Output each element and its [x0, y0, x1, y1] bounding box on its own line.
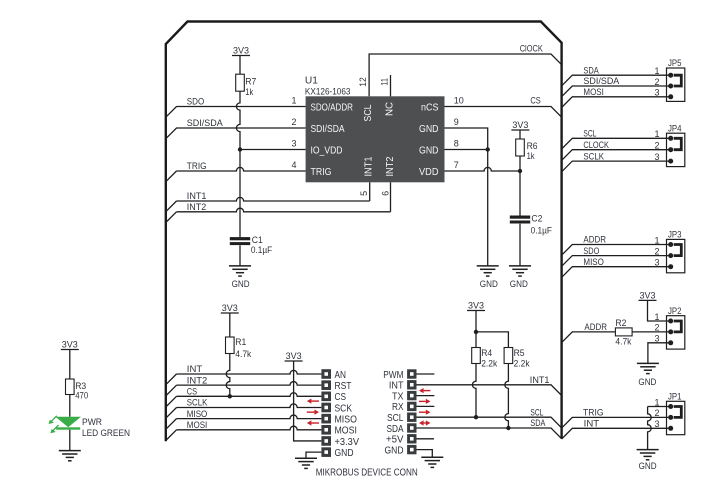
svg-text:0.1µF: 0.1µF — [531, 226, 553, 236]
svg-text:ADDR: ADDR — [583, 235, 606, 245]
svg-text:1: 1 — [291, 96, 296, 106]
svg-text:GND: GND — [638, 377, 656, 388]
svg-text:CS: CS — [187, 387, 197, 397]
svg-text:ADDR: ADDR — [584, 322, 607, 332]
svg-text:SCLK: SCLK — [187, 398, 208, 408]
svg-text:R4: R4 — [481, 348, 492, 358]
svg-text:1: 1 — [654, 129, 659, 139]
svg-text:3: 3 — [654, 334, 659, 344]
svg-text:LED GREEN: LED GREEN — [82, 428, 130, 438]
svg-text:SDA: SDA — [530, 418, 545, 428]
svg-text:8: 8 — [454, 139, 459, 149]
svg-text:INT2: INT2 — [187, 202, 206, 212]
svg-text:12: 12 — [358, 77, 368, 87]
svg-text:5: 5 — [359, 191, 369, 196]
svg-text:GND: GND — [639, 461, 657, 472]
svg-text:INT: INT — [389, 381, 404, 392]
svg-text:SDO: SDO — [583, 246, 599, 256]
svg-text:MOSI: MOSI — [335, 426, 357, 437]
svg-text:9: 9 — [454, 117, 459, 127]
svg-text:MISO: MISO — [187, 409, 208, 419]
svg-text:JP1: JP1 — [668, 392, 682, 402]
svg-text:1k: 1k — [245, 87, 253, 97]
svg-text:VDD: VDD — [419, 167, 439, 178]
svg-text:INT2: INT2 — [187, 375, 208, 385]
svg-text:MOSI: MOSI — [583, 87, 604, 97]
svg-text:JP5: JP5 — [668, 58, 682, 68]
svg-text:R5: R5 — [514, 348, 525, 358]
svg-text:7: 7 — [454, 160, 459, 170]
svg-text:SDI/SDA: SDI/SDA — [311, 124, 345, 135]
svg-text:U1: U1 — [305, 76, 318, 87]
svg-text:SCL: SCL — [583, 129, 596, 139]
svg-text:SDI/SDA: SDI/SDA — [583, 76, 619, 86]
svg-text:3: 3 — [654, 419, 659, 429]
svg-text:3: 3 — [291, 139, 296, 149]
svg-text:+3.3V: +3.3V — [335, 437, 360, 448]
svg-text:TRIG: TRIG — [187, 161, 207, 171]
svg-text:3V3: 3V3 — [468, 301, 484, 311]
svg-text:3V3: 3V3 — [222, 303, 238, 313]
svg-text:ClOCK: ClOCK — [520, 44, 543, 54]
svg-text:JP3: JP3 — [668, 230, 682, 240]
svg-text:INT1: INT1 — [530, 375, 550, 385]
svg-text:TRIG: TRIG — [583, 408, 604, 418]
svg-text:SCL: SCL — [387, 413, 404, 424]
svg-text:CS: CS — [530, 96, 540, 106]
svg-text:CLOCK: CLOCK — [583, 140, 609, 150]
svg-text:SDO/ADDR: SDO/ADDR — [311, 103, 354, 114]
svg-text:1: 1 — [654, 235, 659, 245]
svg-text:TRIG: TRIG — [311, 167, 332, 178]
svg-text:10: 10 — [454, 96, 464, 106]
svg-text:MOSI: MOSI — [187, 420, 208, 430]
svg-text:GND: GND — [480, 279, 498, 290]
svg-text:3: 3 — [654, 88, 659, 98]
svg-text:3: 3 — [654, 152, 659, 162]
svg-text:1: 1 — [654, 66, 659, 76]
svg-text:2: 2 — [654, 323, 659, 333]
svg-text:AN: AN — [335, 370, 347, 381]
svg-text:R3: R3 — [75, 381, 86, 391]
svg-text:PWM: PWM — [383, 370, 403, 381]
svg-text:3V3: 3V3 — [233, 46, 249, 56]
svg-text:MISO: MISO — [583, 257, 604, 267]
svg-text:INT1: INT1 — [363, 156, 374, 176]
svg-text:0.1µF: 0.1µF — [251, 245, 273, 255]
svg-text:SDI/SDA: SDI/SDA — [187, 118, 223, 128]
svg-text:GND: GND — [385, 445, 404, 456]
svg-text:SCL: SCL — [530, 407, 543, 417]
svg-text:C1: C1 — [252, 235, 263, 245]
svg-text:IO_VDD: IO_VDD — [311, 146, 343, 157]
svg-text:SCL: SCL — [363, 104, 374, 121]
svg-text:RST: RST — [335, 381, 352, 392]
svg-text:MISO: MISO — [335, 414, 358, 425]
svg-text:GND: GND — [232, 279, 250, 290]
svg-text:2.2k: 2.2k — [481, 358, 497, 368]
svg-text:SCLK: SCLK — [583, 151, 604, 161]
svg-text:SDA: SDA — [387, 424, 404, 435]
svg-text:INT: INT — [187, 364, 203, 374]
svg-text:R6: R6 — [527, 141, 538, 151]
svg-text:4.7k: 4.7k — [615, 336, 631, 346]
svg-text:2.2k: 2.2k — [514, 358, 530, 368]
svg-text:PWR: PWR — [82, 417, 102, 427]
svg-text:+5V: +5V — [386, 435, 404, 446]
svg-text:SDA: SDA — [583, 65, 598, 75]
svg-text:R2: R2 — [615, 318, 626, 328]
svg-text:KX126-1063: KX126-1063 — [305, 87, 351, 98]
svg-text:2: 2 — [654, 141, 659, 151]
svg-text:4.7k: 4.7k — [235, 349, 251, 359]
svg-text:R7: R7 — [245, 76, 256, 86]
svg-text:JP4: JP4 — [668, 123, 682, 133]
svg-text:3V3: 3V3 — [640, 290, 656, 300]
svg-text:NC: NC — [385, 102, 396, 116]
svg-text:1: 1 — [654, 397, 659, 407]
svg-text:1k: 1k — [527, 151, 535, 161]
svg-text:INT1: INT1 — [187, 191, 207, 201]
svg-text:JP2: JP2 — [668, 306, 682, 316]
svg-text:2: 2 — [654, 246, 659, 256]
svg-text:11: 11 — [379, 78, 389, 86]
svg-text:3V3: 3V3 — [512, 120, 528, 130]
svg-text:GND: GND — [419, 146, 439, 157]
svg-text:6: 6 — [380, 191, 390, 196]
svg-text:SCK: SCK — [335, 403, 353, 414]
svg-text:nCS: nCS — [421, 103, 439, 114]
svg-text:2: 2 — [654, 408, 659, 418]
svg-text:4: 4 — [291, 160, 296, 170]
svg-text:CS: CS — [335, 392, 347, 403]
svg-text:GND: GND — [335, 448, 354, 459]
svg-text:INT2: INT2 — [385, 156, 396, 176]
svg-text:470: 470 — [75, 390, 88, 400]
svg-text:GND: GND — [510, 279, 528, 290]
svg-text:3V3: 3V3 — [286, 351, 302, 361]
svg-text:3V3: 3V3 — [62, 340, 78, 350]
svg-text:MIKROBUS DEVICE CONN: MIKROBUS DEVICE CONN — [316, 467, 418, 478]
svg-text:SDO: SDO — [187, 97, 204, 107]
svg-text:3: 3 — [654, 258, 659, 268]
svg-text:RX: RX — [392, 402, 404, 413]
svg-text:R1: R1 — [235, 337, 246, 347]
svg-text:TX: TX — [392, 391, 404, 402]
svg-text:2: 2 — [654, 77, 659, 87]
svg-text:2: 2 — [291, 117, 296, 127]
svg-text:INT: INT — [584, 419, 600, 429]
svg-text:GND: GND — [419, 124, 439, 135]
svg-text:C2: C2 — [531, 214, 542, 224]
svg-text:1: 1 — [654, 312, 659, 322]
